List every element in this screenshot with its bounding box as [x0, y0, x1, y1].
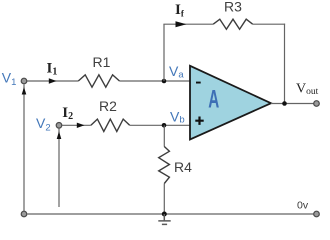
terminal 0v	[314, 211, 320, 217]
resistor R3	[213, 19, 253, 29]
op-amp A	[190, 66, 271, 140]
wire op-amp output to Vout	[271, 103, 314, 105]
op-amp plus sign	[195, 117, 203, 125]
svg-text:Va: Va	[169, 63, 184, 80]
resistor R4	[159, 147, 170, 184]
svg-text:A: A	[208, 86, 219, 114]
arrow up under V2	[57, 131, 62, 139]
ground node junction	[162, 212, 167, 217]
wire node Vb down to R4	[163, 125, 165, 146]
current arrow I1	[49, 78, 57, 83]
wire node Va to op-amp inverting input	[164, 80, 190, 82]
wire feedback top horizontal	[163, 23, 213, 25]
ground symbol	[158, 214, 170, 224]
terminal Vout	[314, 101, 320, 107]
svg-text:R1: R1	[93, 54, 111, 70]
wire node Vb to op-amp non-inverting input	[164, 124, 190, 126]
terminal V2	[56, 123, 62, 129]
wire R3 to right corner	[253, 23, 285, 25]
bottom rail wire	[27, 213, 313, 215]
svg-text:R4: R4	[174, 159, 192, 175]
wire V2 vertical from bottom rail	[58, 129, 60, 208]
wire V1 down to bottom rail	[23, 85, 25, 212]
svg-text:I1: I1	[47, 61, 58, 78]
svg-text:Vb: Vb	[170, 108, 185, 125]
wire R2 to node Vb	[130, 124, 164, 126]
node Vb junction	[162, 123, 167, 128]
resistor R1	[78, 75, 119, 87]
svg-text:R3: R3	[224, 0, 242, 15]
current arrow If	[176, 21, 187, 27]
node Va junction	[162, 79, 167, 84]
arrow up under V1	[22, 87, 27, 95]
node output junction	[282, 101, 287, 106]
svg-text:V1: V1	[2, 70, 17, 89]
wire V1 to R1	[27, 80, 78, 82]
svg-text:Vout: Vout	[296, 82, 319, 97]
svg-text:V2: V2	[36, 115, 51, 134]
terminal V1	[21, 78, 27, 84]
svg-text:If: If	[175, 2, 185, 19]
wire R4 to bottom rail	[163, 184, 165, 215]
wire feedback vertical from node Va	[163, 24, 165, 81]
svg-text:R2: R2	[99, 98, 117, 114]
resistor R2	[91, 119, 130, 131]
svg-text:0v: 0v	[297, 200, 309, 212]
terminal bottom left	[21, 211, 27, 217]
op-amp minus sign	[196, 82, 201, 84]
svg-text:I2: I2	[62, 105, 73, 122]
wire R1 to node Va	[120, 80, 165, 82]
wire V2 to R2	[62, 124, 91, 126]
current arrow I2	[77, 123, 85, 128]
wire feedback right vertical down to output	[284, 24, 286, 104]
